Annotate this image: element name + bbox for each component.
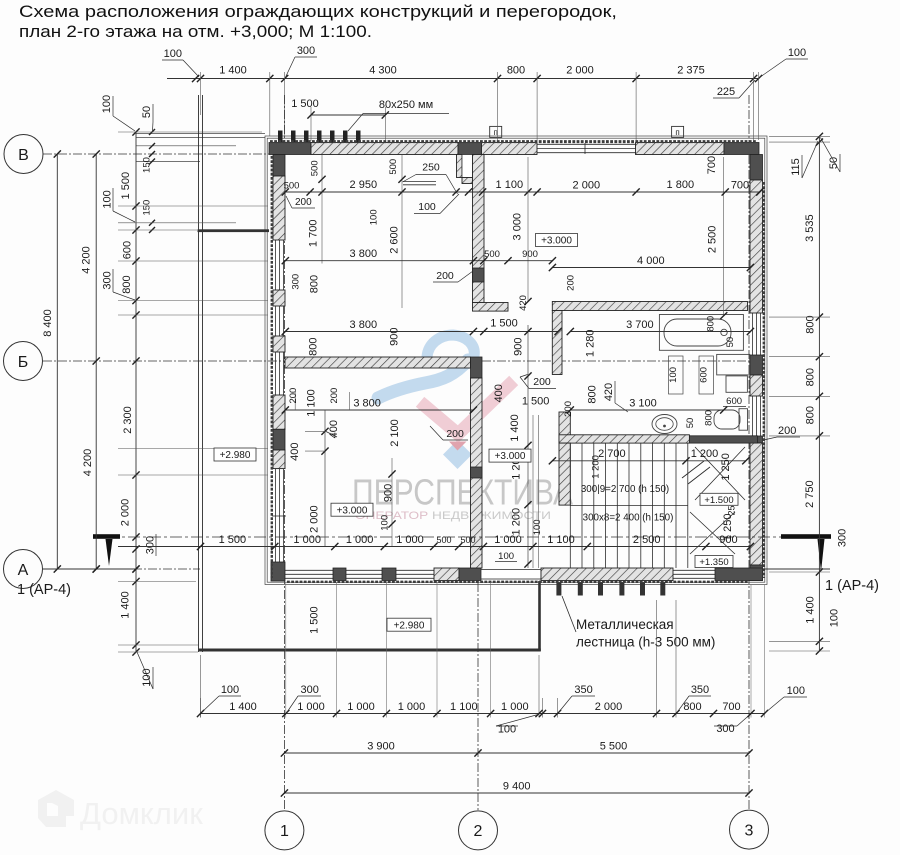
svg-text:100: 100 — [532, 519, 543, 535]
left wall window 1 — [275, 240, 277, 290]
svg-text:100: 100 — [380, 515, 391, 531]
svg-text:500: 500 — [388, 159, 399, 175]
right wall hatched 1 — [750, 180, 763, 313]
svg-text:+2.980: +2.980 — [394, 620, 425, 631]
svg-text:3 800: 3 800 — [350, 319, 378, 331]
svg-text:50: 50 — [725, 337, 736, 348]
svg-text:200: 200 — [566, 275, 577, 291]
svg-text:1 200: 1 200 — [591, 455, 602, 479]
axis circle 3 — [730, 810, 769, 849]
svg-text:500: 500 — [436, 535, 451, 545]
svg-text:+1.350: +1.350 — [699, 557, 728, 568]
top wall dark shaft block — [458, 143, 482, 155]
svg-text:500: 500 — [309, 160, 320, 176]
bottom wall hatched 2 — [541, 568, 673, 581]
room2 400 bracket column — [324, 410, 326, 547]
svg-text:900: 900 — [383, 484, 395, 502]
left wall hatched pier 3 — [273, 336, 285, 352]
dim line 3000 vertical — [527, 157, 529, 302]
level box +3.000 stairs — [489, 449, 531, 462]
svg-text:2 600: 2 600 — [389, 226, 401, 254]
svg-text:100: 100 — [101, 95, 113, 113]
bottom extension lines — [285, 582, 287, 718]
stair pier wall — [559, 412, 570, 443]
interior wall C horizontal (bath top) — [552, 302, 747, 311]
terrace bottom edge — [199, 649, 541, 652]
svg-text:1 000: 1 000 — [398, 701, 426, 713]
hall floor opening edge lines — [532, 415, 534, 568]
left wall dark bottom corner — [271, 562, 285, 581]
svg-text:800: 800 — [683, 701, 701, 713]
svg-text:100: 100 — [101, 190, 113, 208]
svg-text:300: 300 — [101, 271, 113, 289]
left wall hatched 1 — [273, 176, 285, 240]
room2 jamb bracket lines — [294, 392, 296, 410]
cabinet washer — [717, 354, 750, 375]
svg-text:1 400: 1 400 — [805, 596, 817, 624]
svg-text:1 000: 1 000 — [346, 534, 374, 546]
left wall window 2 — [275, 306, 277, 336]
svg-text:800: 800 — [308, 275, 320, 293]
svg-text:800: 800 — [507, 65, 525, 77]
svg-text:900: 900 — [522, 249, 538, 260]
svg-text:500: 500 — [284, 181, 300, 192]
square symbol p1 — [490, 126, 502, 137]
svg-text:600: 600 — [699, 367, 710, 383]
dim row 546 — [118, 546, 750, 548]
left dim col 8400 — [56, 154, 58, 569]
svg-text:350: 350 — [691, 684, 709, 696]
svg-text:2 100: 2 100 — [389, 419, 401, 447]
interior wall A foot — [473, 303, 509, 312]
svg-text:1 700: 1 700 — [308, 220, 320, 248]
right wall hatched 2 — [750, 375, 763, 396]
axis line V — [43, 153, 273, 155]
svg-text:Б: Б — [18, 354, 29, 371]
dim row 405 — [285, 409, 473, 411]
svg-text:1 (АР-4): 1 (АР-4) — [825, 578, 879, 594]
svg-text:1 500: 1 500 — [308, 606, 320, 634]
svg-text:800: 800 — [804, 406, 816, 424]
svg-text:1 280: 1 280 — [584, 330, 596, 358]
interior dim row upper — [285, 191, 760, 193]
svg-text:300|9=2 700 (h 150): 300|9=2 700 (h 150) — [581, 484, 669, 495]
svg-text:420: 420 — [603, 383, 615, 401]
svg-text:2 000: 2 000 — [566, 65, 594, 77]
svg-text:1 400: 1 400 — [120, 591, 132, 619]
stair dim row — [552, 460, 745, 462]
svg-text:200: 200 — [446, 428, 464, 440]
svg-text:800: 800 — [704, 410, 715, 426]
svg-text:150: 150 — [142, 157, 153, 173]
bottom dim row 3 — [284, 792, 749, 794]
right dim col — [818, 136, 820, 651]
svg-text:4 200: 4 200 — [82, 449, 94, 477]
top wall hatched 2 — [482, 143, 538, 155]
left extension lines — [118, 131, 262, 133]
svg-text:2 000: 2 000 — [573, 179, 601, 191]
svg-text:1 500: 1 500 — [120, 172, 132, 200]
bottom wall hatched 1 — [434, 568, 459, 581]
svg-text:1 500: 1 500 — [522, 395, 550, 407]
left wall hatched pier 2 — [273, 290, 285, 306]
svg-text:80х250 мм: 80х250 мм — [379, 99, 433, 111]
svg-text:300: 300 — [297, 45, 315, 57]
svg-text:2 000: 2 000 — [308, 505, 320, 533]
svg-text:Схема расположения ограждающих: Схема расположения ограждающих конструкц… — [19, 2, 617, 21]
svg-text:1 400: 1 400 — [219, 65, 247, 77]
svg-text:1: 1 — [280, 823, 289, 840]
svg-text:1 500: 1 500 — [490, 318, 518, 330]
wall stud texture bottom — [287, 581, 748, 583]
watermark domklik — [38, 790, 203, 831]
svg-text:350: 350 — [574, 684, 592, 696]
left dim col detail — [135, 132, 137, 652]
svg-text:1 500: 1 500 — [219, 534, 247, 546]
svg-text:2 000: 2 000 — [595, 701, 623, 713]
svg-text:2 000: 2 000 — [120, 499, 132, 527]
stair landing cross — [690, 512, 735, 554]
svg-text:1 400: 1 400 — [509, 414, 521, 442]
left wall dark mid — [273, 429, 285, 450]
svg-text:1 100: 1 100 — [547, 534, 575, 546]
bathtub — [659, 315, 743, 351]
level box +3.000 top right — [536, 234, 578, 247]
dim line 2500 vertical — [723, 157, 725, 316]
level box +1.500 — [700, 493, 738, 505]
svg-text:1 250: 1 250 — [720, 453, 732, 481]
svg-text:4 300: 4 300 — [369, 65, 397, 77]
svg-text:800: 800 — [121, 275, 133, 293]
svg-text:400: 400 — [328, 420, 340, 438]
hall vertical dim line — [527, 325, 529, 568]
bottom wall window 2 — [346, 569, 382, 571]
left wall dark top — [273, 155, 285, 177]
square symbol p2 — [672, 126, 684, 137]
svg-text:1 000: 1 000 — [293, 534, 321, 546]
svg-text:4 000: 4 000 — [637, 255, 665, 267]
svg-text:600: 600 — [122, 241, 134, 259]
svg-text:500: 500 — [484, 249, 500, 260]
toilet — [739, 409, 748, 431]
svg-text:800: 800 — [804, 368, 816, 386]
left wall window 4 — [275, 469, 277, 562]
bottom dim row 1 — [201, 713, 765, 715]
section line 1-1 — [107, 536, 829, 538]
axis 3 vertical — [748, 95, 750, 810]
svg-text:50: 50 — [828, 157, 840, 169]
bottom wall dark pier 3 — [459, 568, 481, 581]
svg-text:100: 100 — [369, 209, 380, 225]
metal stair studs below wall — [556, 583, 561, 596]
top wall dark corner right — [724, 143, 759, 155]
svg-text:+3.000: +3.000 — [495, 451, 526, 462]
svg-text:300: 300 — [301, 684, 319, 696]
left wall hatched 4 — [273, 395, 285, 429]
svg-text:800: 800 — [308, 338, 320, 356]
left wall window 3 — [275, 352, 277, 395]
right wall dark beam joint — [750, 436, 763, 443]
dim line room2 vertical — [391, 458, 393, 547]
svg-text:300: 300 — [290, 274, 301, 290]
svg-text:1 000: 1 000 — [396, 534, 424, 546]
stair flight break marks — [682, 461, 704, 478]
svg-text:100: 100 — [668, 367, 679, 383]
wall B dark top — [471, 357, 483, 378]
svg-text:3 535: 3 535 — [804, 214, 816, 242]
svg-text:500: 500 — [460, 535, 475, 545]
shaft cavity — [462, 155, 473, 178]
svg-text:2 375: 2 375 — [677, 65, 705, 77]
svg-text:50: 50 — [141, 106, 153, 118]
extension line x402 — [401, 155, 403, 309]
svg-text:900: 900 — [719, 534, 737, 546]
svg-text:250: 250 — [422, 162, 440, 174]
svg-text:900: 900 — [389, 328, 401, 346]
axis line B — [43, 360, 285, 362]
svg-text:1 200: 1 200 — [691, 448, 719, 460]
svg-text:9 400: 9 400 — [503, 781, 531, 793]
axis 2 vertical — [477, 568, 479, 810]
svg-text:1 000: 1 000 — [347, 701, 375, 713]
svg-text:1 000: 1 000 — [297, 701, 325, 713]
axis circle 2 — [459, 811, 498, 850]
terrace right edge — [538, 581, 541, 651]
svg-text:Металлическая: Металлическая — [576, 617, 674, 632]
interior wall A vertical — [473, 155, 485, 303]
svg-text:план 2-го этажа на отм. +3,000: план 2-го этажа на отм. +3,000; М 1:100. — [19, 22, 372, 41]
right wall hatched 3 — [750, 443, 763, 565]
svg-text:100: 100 — [829, 609, 841, 627]
roof eaves outline — [265, 136, 767, 585]
axis circle Bb — [4, 342, 43, 381]
svg-text:400: 400 — [289, 443, 301, 461]
svg-text:100: 100 — [787, 685, 805, 697]
svg-text:2 950: 2 950 — [350, 179, 378, 191]
svg-text:100: 100 — [418, 201, 436, 213]
svg-text:300: 300 — [145, 536, 157, 554]
svg-text:1 200: 1 200 — [510, 508, 522, 536]
svg-text:100: 100 — [164, 48, 182, 60]
svg-text:4 200: 4 200 — [81, 246, 93, 274]
svg-text:300: 300 — [837, 529, 849, 547]
terrace left edge — [198, 95, 200, 652]
wall stud texture top — [270, 140, 757, 143]
svg-text:600: 600 — [726, 396, 742, 407]
stair landing upper cross — [695, 447, 745, 500]
axis circle 1 — [265, 811, 304, 850]
svg-text:+2.980: +2.980 — [220, 450, 251, 461]
svg-text:200: 200 — [295, 197, 312, 208]
right wall dark bottom corner — [750, 565, 763, 581]
right wall window 1 — [752, 313, 754, 355]
svg-text:200: 200 — [288, 388, 299, 404]
svg-text:300х8=2 400 (h 150): 300х8=2 400 (h 150) — [583, 513, 674, 524]
top wall window — [537, 143, 636, 145]
svg-text:1 100: 1 100 — [450, 701, 478, 713]
terrace top edge — [198, 229, 270, 232]
level box +2.980 terrace left — [214, 448, 256, 461]
svg-text:1 500: 1 500 — [291, 98, 319, 110]
interior wall A dark segment — [473, 268, 485, 282]
axis circle V — [4, 135, 43, 174]
top dim row2 1500 — [311, 114, 385, 116]
bottom dim row 2 — [284, 752, 749, 754]
axis line A — [43, 568, 200, 570]
svg-text:2 700: 2 700 — [598, 448, 626, 460]
top wall hatched 1 — [311, 143, 458, 155]
svg-text:200: 200 — [563, 401, 574, 417]
svg-text:1 100: 1 100 — [306, 389, 318, 417]
svg-text:1 000: 1 000 — [501, 701, 529, 713]
svg-text:п: п — [675, 128, 679, 137]
svg-text:200: 200 — [436, 270, 454, 282]
bottom wall dark pier 2 — [382, 568, 396, 581]
bottom wall window 3 — [396, 569, 434, 571]
top wall dark corner left — [269, 143, 311, 155]
svg-text:800: 800 — [706, 316, 717, 332]
svg-text:115: 115 — [790, 158, 802, 176]
svg-text:3 700: 3 700 — [626, 319, 654, 331]
svg-text:1 (АР-4): 1 (АР-4) — [17, 582, 71, 598]
level box +1.350 — [695, 556, 733, 568]
bottom wall window 4 — [673, 569, 715, 571]
svg-text:50: 50 — [685, 418, 696, 429]
wall stud texture right — [763, 182, 765, 578]
svg-text:700: 700 — [706, 156, 718, 174]
section marker right — [781, 534, 831, 539]
interior wall C leg — [552, 311, 562, 375]
svg-text:300: 300 — [716, 723, 734, 735]
left dim col 4200x2 — [95, 154, 97, 569]
axis 1 vertical — [283, 95, 285, 810]
svg-text:+1.500: +1.500 — [704, 495, 733, 506]
svg-text:800: 800 — [804, 315, 816, 333]
stair treads — [569, 443, 571, 568]
axis circle A — [4, 550, 43, 589]
right wall window 2 — [752, 396, 754, 436]
bottom wall door opening — [481, 570, 541, 580]
svg-text:лестница (h-3 500 мм): лестница (h-3 500 мм) — [576, 635, 715, 650]
shaft wall left strip — [457, 155, 463, 178]
svg-text:700: 700 — [722, 701, 740, 713]
stair/bath wall horizontal — [559, 435, 689, 443]
extension line x322 — [321, 155, 323, 264]
svg-text:100: 100 — [141, 668, 153, 686]
svg-text:100: 100 — [498, 724, 516, 736]
svg-text:3 100: 3 100 — [629, 398, 657, 410]
svg-text:700: 700 — [731, 179, 749, 191]
svg-text:400: 400 — [493, 384, 505, 402]
stair left wall — [559, 443, 570, 505]
axis B partition wall — [285, 357, 471, 368]
svg-text:800: 800 — [587, 385, 599, 403]
svg-text:2 300: 2 300 — [122, 406, 134, 434]
right wall dark block — [750, 355, 763, 375]
wall B dark segment — [471, 467, 483, 478]
bottom wall window 1 — [285, 569, 333, 571]
svg-text:420: 420 — [518, 295, 529, 311]
top dim row — [167, 78, 759, 80]
svg-text:В: В — [18, 147, 29, 164]
svg-text:8 400: 8 400 — [42, 309, 54, 337]
svg-text:200: 200 — [533, 376, 551, 388]
svg-text:3: 3 — [745, 823, 754, 840]
top wall hatched 3 — [636, 143, 725, 155]
stair mid landing line — [570, 505, 688, 507]
svg-text:200: 200 — [778, 425, 796, 437]
svg-text:225: 225 — [717, 86, 735, 98]
svg-text:1 100: 1 100 — [496, 179, 524, 191]
level box +2.980 terrace bottom — [387, 618, 431, 631]
wall B vertical — [471, 378, 483, 568]
svg-text:+3.000: +3.000 — [337, 505, 368, 516]
section marker left — [93, 534, 120, 539]
svg-text:1 400: 1 400 — [229, 701, 257, 713]
svg-text:1 800: 1 800 — [667, 179, 695, 191]
left small col — [149, 129, 155, 135]
svg-text:+3.000: +3.000 — [541, 236, 572, 247]
svg-text:1 000: 1 000 — [494, 534, 522, 546]
svg-text:150: 150 — [142, 200, 153, 216]
svg-text:3 800: 3 800 — [353, 398, 381, 410]
svg-text:Домклик: Домклик — [80, 796, 203, 831]
svg-text:2 750: 2 750 — [804, 480, 816, 508]
svg-text:200: 200 — [329, 388, 340, 404]
svg-text:2: 2 — [474, 823, 483, 840]
svg-text:100: 100 — [221, 684, 239, 696]
right extension lines — [769, 135, 830, 137]
left wall hatched 5 — [273, 450, 285, 469]
level box +3.000 room2 — [331, 503, 373, 516]
svg-text:100: 100 — [788, 47, 806, 59]
eaves lines over terrace — [136, 133, 265, 135]
dim row 260 — [285, 260, 552, 262]
wall stud texture left — [271, 156, 273, 578]
washbasin — [652, 415, 677, 434]
A axis dim line — [43, 568, 136, 570]
svg-text:100: 100 — [498, 551, 514, 562]
watermark perspektiva logo — [378, 335, 509, 469]
svg-text:2 500: 2 500 — [633, 534, 661, 546]
svg-text:3 800: 3 800 — [350, 248, 378, 260]
dim row 331 — [285, 331, 558, 333]
svg-text:2 500: 2 500 — [706, 226, 718, 254]
svg-text:А: А — [18, 562, 29, 579]
joist studs 80x250 — [278, 131, 283, 143]
bottom wall dark corner right — [715, 568, 763, 581]
bottom wall dark pier 1 — [333, 568, 346, 581]
svg-text:900: 900 — [513, 338, 525, 356]
svg-text:3 000: 3 000 — [512, 213, 524, 241]
svg-text:3 900: 3 900 — [367, 741, 395, 753]
svg-text:5 500: 5 500 — [600, 741, 628, 753]
stair dark beam — [689, 436, 757, 443]
